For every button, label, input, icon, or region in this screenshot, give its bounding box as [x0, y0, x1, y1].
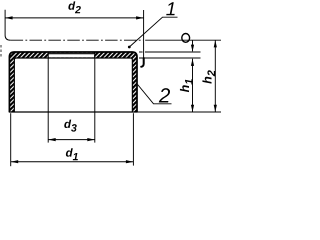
- d1 left arrow: [11, 160, 19, 163]
- d1 dimension line: [11, 161, 134, 163]
- dimension text h2: [202, 70, 215, 83]
- d2 right arrow: [136, 16, 144, 19]
- d1 right extension: [132, 113, 134, 165]
- dimension text d2: [68, 1, 80, 13]
- edge stray dash mark: [0, 45, 2, 57]
- dimension text d3: [64, 120, 76, 132]
- cap section hatched ring: [9, 52, 137, 112]
- cap inner edge line: [14, 58, 132, 112]
- d3 left arrow: [48, 138, 56, 141]
- label 1 text: [166, 2, 174, 15]
- dimension text d1: [66, 148, 78, 160]
- h1 top arrow: [191, 59, 194, 66]
- d1 left extension: [10, 113, 12, 166]
- h1 bottom arrow: [191, 105, 194, 112]
- theta arrow stem: [192, 40, 194, 51]
- dimension text h1: [180, 79, 193, 92]
- label 2 text: [159, 88, 170, 102]
- h2 top arrow: [214, 40, 217, 47]
- theta shelf line: [145, 39, 221, 41]
- h2 dimension stem: [214, 40, 216, 112]
- d2 left extension line curving into centerline: [5, 10, 11, 41]
- plate top extension line: [139, 51, 201, 53]
- dimension d2 line: [5, 17, 144, 19]
- plate bottom extension line: [139, 57, 201, 59]
- cap bottom edge: [9, 111, 138, 113]
- theta glyph: [182, 34, 190, 43]
- hole right edge and d3 extension: [94, 52, 96, 143]
- hole far-side edge line: [48, 53, 95, 55]
- cap outer edge line: [9, 52, 137, 112]
- d1 right arrow: [126, 160, 133, 163]
- d2 right extension line: [143, 10, 145, 58]
- bottom extension line right: [138, 111, 221, 113]
- hole in plate (unhatched): [49, 53, 94, 58]
- d2 left arrow: [5, 16, 13, 19]
- h2 bottom arrow: [214, 105, 217, 112]
- rim tip free state: [141, 58, 144, 67]
- d3 dimension line: [48, 139, 95, 141]
- d3 right arrow: [87, 138, 95, 141]
- label 1 leader: [129, 17, 177, 47]
- label 1 leader dot: [128, 46, 131, 49]
- hole left edge and d3 extension: [47, 52, 49, 143]
- h1 dimension stem: [192, 59, 194, 112]
- centerline dash-dot: [11, 39, 144, 41]
- label 2 leader: [138, 85, 172, 104]
- theta down arrow: [191, 45, 194, 52]
